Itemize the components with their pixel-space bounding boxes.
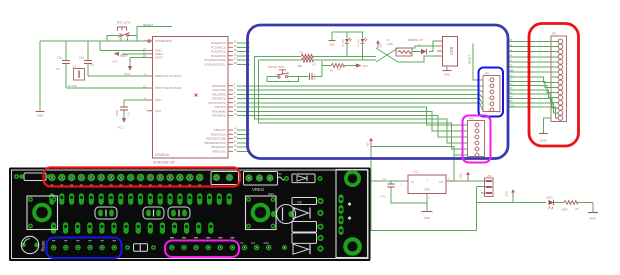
svg-text:+3V3: +3V3 xyxy=(460,173,463,179)
svg-text:Q1: Q1 xyxy=(73,65,77,69)
svg-text:R3: R3 xyxy=(298,200,302,204)
svg-text:R2: R2 xyxy=(313,63,317,67)
svg-text:RX_LED: RX_LED xyxy=(343,38,345,47)
svg-text:VREG: VREG xyxy=(252,187,265,192)
svg-text:VCC: VCC xyxy=(113,59,119,63)
svg-text:ATMEGA8-16P: ATMEGA8-16P xyxy=(153,161,175,165)
svg-text:13: 13 xyxy=(234,112,238,116)
svg-text:68K: 68K xyxy=(298,64,303,68)
svg-text:230R: 230R xyxy=(562,208,568,211)
svg-text:100n: 100n xyxy=(314,74,317,80)
svg-text:AREF: AREF xyxy=(120,54,129,58)
svg-text:VCC: VCC xyxy=(363,64,369,68)
svg-text:GND: GND xyxy=(264,243,269,245)
svg-text:ATMEGA: ATMEGA xyxy=(155,153,170,157)
svg-text:JP1: JP1 xyxy=(485,71,490,75)
svg-text:16 MHz: 16 MHz xyxy=(68,84,78,88)
svg-text:19: 19 xyxy=(234,148,238,152)
svg-text:27p: 27p xyxy=(79,56,84,60)
svg-text:3V3: 3V3 xyxy=(251,243,256,245)
svg-text:C5: C5 xyxy=(127,112,131,116)
svg-text:5V: 5V xyxy=(241,243,244,245)
svg-text:Reset: Reset xyxy=(41,240,46,252)
svg-text:PC6(RESET): PC6(RESET) xyxy=(155,39,172,43)
svg-text:VCC: VCC xyxy=(155,109,161,113)
svg-text:PC5(ADC5/SCL): PC5(ADC5/SCL) xyxy=(204,62,226,66)
svg-text:28: 28 xyxy=(234,61,238,65)
svg-text:MBR0540-TP: MBR0540-TP xyxy=(408,39,423,42)
svg-text:IC2: IC2 xyxy=(414,170,419,174)
svg-text:27p: 27p xyxy=(57,56,62,60)
svg-text:LED1: LED1 xyxy=(546,195,553,199)
svg-text:PROG_BTN: PROG_BTN xyxy=(269,65,285,69)
svg-text:GND: GND xyxy=(444,72,450,76)
svg-text:RESET: RESET xyxy=(468,55,472,64)
svg-text:GND: GND xyxy=(155,98,161,102)
svg-text:GND: GND xyxy=(424,187,430,191)
svg-text:+5V: +5V xyxy=(380,43,383,48)
svg-text:PB5(SCK): PB5(SCK) xyxy=(213,149,226,153)
svg-text:JP3: JP3 xyxy=(552,32,557,36)
svg-text:GND: GND xyxy=(540,139,546,143)
svg-text:VI: VI xyxy=(411,180,414,184)
svg-text:5V: 5V xyxy=(279,172,282,176)
svg-text:VCC: VCC xyxy=(118,126,125,130)
svg-text:4.7u: 4.7u xyxy=(381,196,386,199)
svg-text:GND: GND xyxy=(510,105,515,107)
svg-text:PB6(XTAL1/TOSC1): PB6(XTAL1/TOSC1) xyxy=(155,74,181,78)
svg-text:VCC: VCC xyxy=(124,72,131,76)
svg-text:TX_LED: TX_LED xyxy=(358,39,360,47)
svg-text:JP2: JP2 xyxy=(469,116,474,120)
svg-text:PD7(AIN1): PD7(AIN1) xyxy=(212,114,226,118)
svg-text:+5V: +5V xyxy=(366,142,370,147)
svg-text:+: + xyxy=(426,178,428,182)
svg-text:GND: GND xyxy=(329,43,335,47)
svg-text:USB: USB xyxy=(449,46,454,55)
svg-text:C4: C4 xyxy=(383,177,387,181)
svg-text:1K: 1K xyxy=(330,69,333,73)
svg-text:FUSE: FUSE xyxy=(387,43,394,46)
svg-text:C1: C1 xyxy=(91,63,95,67)
svg-text:GND: GND xyxy=(589,217,595,221)
svg-text:VCC: VCC xyxy=(505,191,509,197)
svg-text:R1: R1 xyxy=(300,51,304,55)
svg-text:PB7(XTAL2/TOSC2): PB7(XTAL2/TOSC2) xyxy=(155,86,181,90)
svg-text:GND: GND xyxy=(424,216,430,220)
svg-text:AVCC: AVCC xyxy=(155,56,163,60)
svg-text:C2: C2 xyxy=(56,67,60,71)
svg-text:GND: GND xyxy=(37,114,45,118)
svg-text:RESET: RESET xyxy=(143,23,153,27)
svg-text:SW3: SW3 xyxy=(268,192,274,196)
svg-text:100n: 100n xyxy=(115,110,119,116)
svg-text:JP4: JP4 xyxy=(487,174,492,178)
svg-text:RST_BTN: RST_BTN xyxy=(117,20,130,24)
